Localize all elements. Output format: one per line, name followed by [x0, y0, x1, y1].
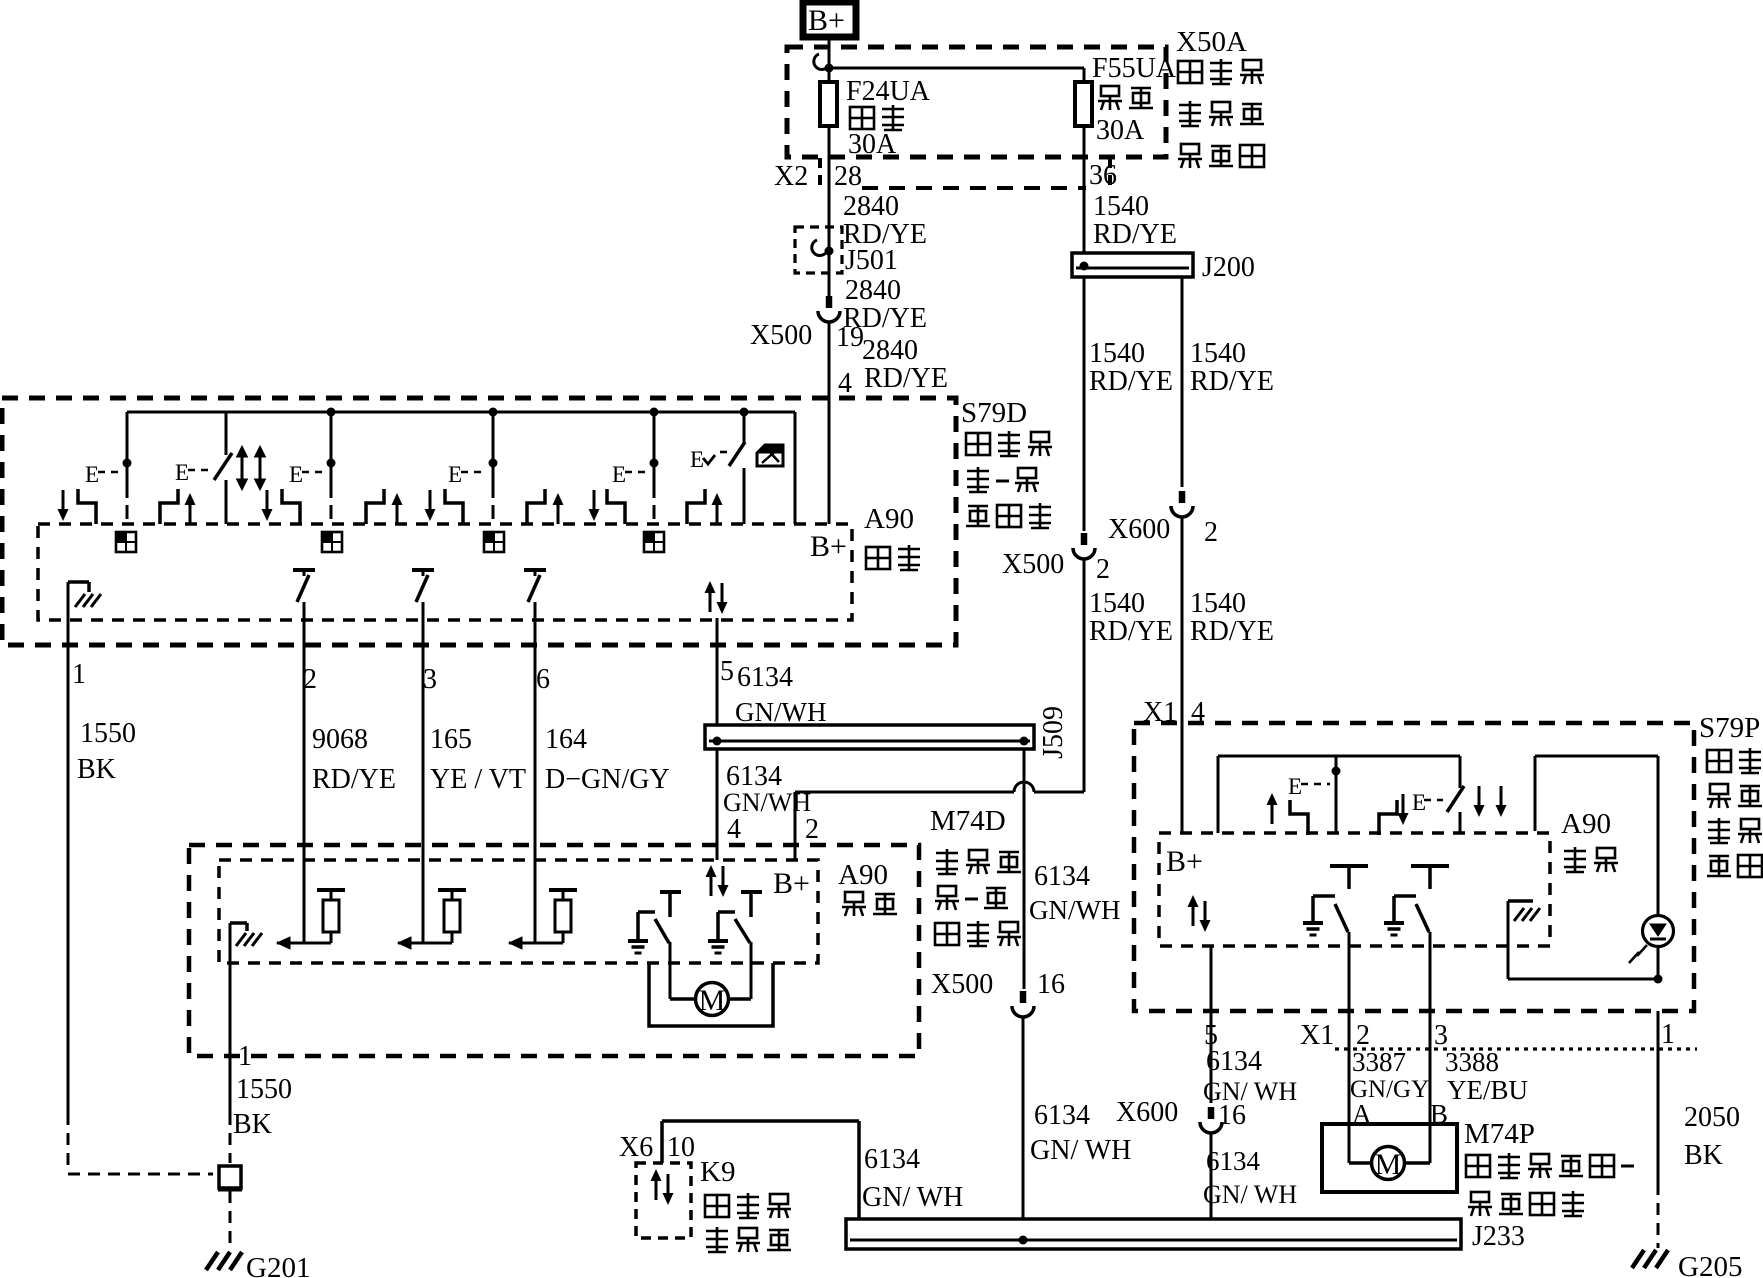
module K9 arrows [651, 1169, 662, 1200]
svg-text:J509: J509 [1038, 706, 1069, 759]
svg-text:E: E [85, 462, 99, 487]
switch drop wire x654 [650, 408, 659, 417]
svg-text:6134: 6134 [1034, 861, 1090, 892]
updown arrows S79P [1188, 895, 1199, 926]
connector X600 pin2 [1171, 491, 1193, 517]
double down arrows S79P [1474, 786, 1485, 817]
svg-text:S79P: S79P [1699, 712, 1760, 744]
wire S79P pin5 [1210, 946, 1213, 1103]
svg-text:30A: 30A [848, 129, 897, 160]
svg-text:2: 2 [1096, 554, 1110, 585]
svg-text:RD/YE: RD/YE [1089, 616, 1173, 647]
svg-text:B+: B+ [810, 530, 847, 563]
svg-text:19: 19 [836, 322, 864, 353]
svg-text:2840: 2840 [845, 275, 901, 306]
svg-text:E: E [448, 462, 462, 487]
svg-text:4: 4 [838, 368, 852, 399]
svg-text:E: E [612, 462, 626, 487]
wire B+ horizontal to M74D pin2 [795, 791, 1014, 794]
bus wire inside S79D [127, 411, 795, 414]
svg-text:164: 164 [545, 724, 587, 755]
switch key lockout [740, 408, 749, 417]
svg-text:2840: 2840 [843, 191, 899, 222]
junction bar J509 [705, 725, 1034, 749]
connector X500 pin2 [1073, 533, 1095, 559]
relay contact unit right S79P [1411, 864, 1449, 868]
svg-text:X600: X600 [1116, 1097, 1178, 1128]
svg-text:6: 6 [536, 664, 550, 695]
svg-text:3388: 3388 [1445, 1047, 1499, 1077]
switch contacts S79P [1267, 793, 1278, 824]
logic A90 inner box of M74D [219, 860, 818, 963]
motor M74P box [1322, 1124, 1457, 1192]
component M74D outer box [189, 845, 919, 1056]
double arrows up-down [241, 455, 244, 481]
svg-text:B+: B+ [773, 867, 810, 900]
updown arrows pin5 [705, 581, 716, 612]
svg-text:YE / VT: YE / VT [430, 764, 526, 795]
bus end drop [794, 412, 797, 524]
svg-text:M: M [1375, 1148, 1402, 1181]
svg-text:B+: B+ [1166, 845, 1203, 878]
wire J509 to M74D pin4 [716, 749, 719, 860]
svg-text:RD/YE: RD/YE [1089, 366, 1173, 397]
motor M74D [696, 983, 729, 1016]
svg-text:2: 2 [1204, 517, 1218, 548]
svg-text:6134: 6134 [1034, 1100, 1090, 1131]
connector X500 pin16 [1012, 991, 1034, 1017]
wire X600-16 to J233 [1210, 1133, 1213, 1219]
wire J509 right to X500-16 [1023, 749, 1026, 989]
switch centre pivot [225, 412, 228, 455]
svg-text:RD/YE: RD/YE [1190, 616, 1274, 647]
module K9 wire [660, 1121, 664, 1163]
svg-text:36: 36 [1089, 160, 1117, 191]
limit resistor unit x563 [509, 942, 563, 945]
relay tswitch pin2 [293, 568, 315, 572]
svg-text:1540: 1540 [1190, 338, 1246, 369]
svg-text:1550: 1550 [80, 718, 136, 749]
splice hook at B+ node [814, 54, 829, 69]
wire F24UA down to J501 [828, 126, 831, 296]
switch drop wire x127 [123, 459, 132, 468]
svg-text:X2: X2 [774, 161, 808, 192]
svg-text:9068: 9068 [312, 724, 368, 755]
wire 1540 right branch [1181, 277, 1184, 487]
svg-text:1: 1 [1661, 1019, 1675, 1050]
junction bar J233 [846, 1219, 1461, 1249]
fuse box X50A outline [787, 47, 1166, 157]
fuse F24UA [820, 82, 837, 126]
wire M74D pin1 dashed [229, 1056, 232, 1113]
bus wire S79P [1218, 755, 1460, 758]
ground bracket M74D [229, 923, 232, 1056]
connector X2 row [862, 186, 1086, 190]
svg-text:E: E [1288, 774, 1302, 799]
wire X500-16 to J233 [1022, 1017, 1025, 1219]
ground bracket S79P [1508, 899, 1533, 903]
svg-text:5: 5 [720, 656, 734, 687]
svg-text:4: 4 [727, 814, 741, 845]
svg-text:F55UA: F55UA [1092, 53, 1177, 84]
svg-text:G201: G201 [246, 1252, 310, 1278]
relay tswitch pin3 [412, 568, 434, 572]
module K9 box [636, 1163, 691, 1238]
svg-text:2840: 2840 [862, 335, 918, 366]
node junction dot top [825, 64, 834, 73]
svg-text:S79D: S79D [961, 397, 1027, 429]
wire 2050 BK [1657, 1011, 1660, 1183]
svg-text:1550: 1550 [236, 1074, 292, 1105]
svg-text:RD/YE: RD/YE [1093, 219, 1177, 250]
svg-text:RD/YE: RD/YE [864, 363, 948, 394]
wire X500-19 to S79D B+ [828, 322, 831, 524]
motor M74P [1372, 1147, 1405, 1180]
svg-text:165: 165 [430, 724, 472, 755]
updown arrows M74D [706, 865, 717, 896]
wire pin1 down [67, 645, 70, 1113]
wire 165 YE/VT [422, 645, 425, 943]
svg-text:J200: J200 [1202, 252, 1255, 283]
svg-text:E: E [1412, 790, 1426, 815]
connector X500 pin19 [818, 296, 840, 322]
svg-text:A90: A90 [1561, 808, 1611, 840]
svg-text:1540: 1540 [1190, 588, 1246, 619]
relay contact unit left S79P [1330, 864, 1368, 868]
svg-text:GN/WH: GN/WH [735, 697, 826, 727]
svg-text:A90: A90 [864, 503, 914, 535]
svg-text:D−GN/GY: D−GN/GY [545, 764, 670, 795]
svg-text:K9: K9 [700, 1156, 735, 1188]
svg-text:F24UA: F24UA [846, 76, 931, 107]
svg-text:GN/WH: GN/WH [1029, 895, 1120, 925]
svg-text:BK: BK [233, 1109, 272, 1140]
svg-text:E: E [289, 462, 303, 487]
svg-text:X500: X500 [931, 969, 993, 1000]
wire F55UA down to J200 [1083, 126, 1086, 253]
svg-text:GN/ WH: GN/ WH [1030, 1135, 1131, 1166]
svg-text:M74P: M74P [1464, 1118, 1535, 1150]
svg-text:6134: 6134 [864, 1144, 920, 1175]
svg-text:10: 10 [667, 1132, 695, 1163]
svg-text:X600: X600 [1108, 514, 1170, 545]
svg-text:GN/ WH: GN/ WH [1203, 1180, 1297, 1209]
wire X1-4 into S79P [1181, 723, 1184, 833]
wire X600-2 down to S79P [1181, 517, 1184, 723]
svg-text:30A: 30A [1096, 115, 1145, 146]
wire lamp return [1508, 978, 1658, 981]
svg-text:1540: 1540 [1089, 588, 1145, 619]
svg-text:A90: A90 [838, 859, 888, 891]
svg-text:M: M [699, 984, 726, 1017]
wire 1550 BK dashed to splice [67, 1113, 70, 1168]
svg-text:M74D: M74D [930, 805, 1006, 837]
splice J501 box [795, 227, 842, 273]
connector X1 dotted row [1335, 1047, 1697, 1050]
component S79P outer box [1134, 723, 1694, 1011]
svg-text:X1: X1 [1300, 1020, 1334, 1051]
junction bar J200 [1072, 253, 1193, 277]
splice J501 dot [825, 247, 834, 256]
ground G205 [1632, 1250, 1668, 1268]
svg-text:BK: BK [1684, 1140, 1723, 1171]
svg-text:1: 1 [238, 1041, 252, 1072]
svg-text:28: 28 [834, 161, 862, 192]
switch pivot S79P [1459, 756, 1462, 788]
LED indicator lamp [1643, 916, 1674, 947]
connector X600 pin16 [1200, 1107, 1222, 1133]
svg-text:3: 3 [423, 664, 437, 695]
logic A90 inner box of S79D [38, 524, 852, 620]
switch contacts row [58, 490, 69, 521]
wire top bus to F55UA [829, 67, 1084, 70]
svg-text:16: 16 [1037, 969, 1065, 1000]
relay contact unit left M74D [660, 890, 681, 894]
switch drop wire x493 [489, 408, 498, 417]
splice J501 hook [812, 240, 827, 255]
svg-text:X500: X500 [1002, 549, 1064, 580]
wire 164 D-GN/GY [534, 645, 537, 943]
switch drop S79P [1332, 767, 1341, 776]
wire 1540 left branch [1083, 277, 1086, 531]
svg-text:YE/BU: YE/BU [1447, 1075, 1528, 1105]
svg-text:1540: 1540 [1093, 191, 1149, 222]
splice eyelet square [219, 1166, 241, 1188]
limit resistor unit x331 [277, 942, 331, 945]
svg-text:G205: G205 [1678, 1251, 1742, 1278]
wire B+ to fuse box [828, 38, 831, 82]
svg-text:RD/YE: RD/YE [312, 764, 396, 795]
svg-text:E: E [175, 460, 189, 485]
svg-text:BK: BK [77, 754, 116, 785]
icon window glyph [757, 445, 783, 466]
svg-text:E: E [690, 447, 704, 472]
svg-text:X500: X500 [750, 320, 812, 351]
svg-text:X50A: X50A [1176, 26, 1247, 58]
limit resistor unit x452 [398, 942, 452, 945]
ground G201 [206, 1252, 242, 1270]
svg-text:1540: 1540 [1089, 338, 1145, 369]
relay tswitch pin6 [524, 568, 546, 572]
svg-text:6134: 6134 [737, 662, 793, 693]
svg-text:2050: 2050 [1684, 1102, 1740, 1133]
connector pads checkered [116, 532, 136, 552]
svg-text:B+: B+ [808, 4, 845, 37]
svg-text:6134: 6134 [1206, 1046, 1262, 1077]
wire splice to G201 [229, 1191, 232, 1250]
svg-text:3387: 3387 [1352, 1047, 1406, 1077]
ground bracket in S79D logic [67, 582, 70, 645]
svg-text:J501: J501 [845, 245, 898, 276]
svg-text:6134: 6134 [1206, 1146, 1261, 1176]
svg-text:X6: X6 [619, 1132, 653, 1163]
component S79D outer box [2, 398, 956, 645]
logic A90 inner box of S79P [1159, 833, 1550, 946]
relay contact unit right M74D [741, 890, 762, 894]
svg-text:1: 1 [72, 659, 86, 690]
motor M74D loop [649, 963, 773, 1026]
svg-text:GN/ WH: GN/ WH [862, 1182, 963, 1213]
fuse F55UA [1075, 82, 1092, 126]
svg-text:J233: J233 [1472, 1221, 1525, 1252]
lamp branch wire [1535, 755, 1658, 758]
wire 9068 RD/YE [303, 645, 306, 943]
svg-text:RD/YE: RD/YE [1190, 366, 1274, 397]
svg-text:2: 2 [805, 814, 819, 845]
node B+ battery feed [803, 2, 856, 37]
switch drop wire x331 [327, 408, 336, 417]
